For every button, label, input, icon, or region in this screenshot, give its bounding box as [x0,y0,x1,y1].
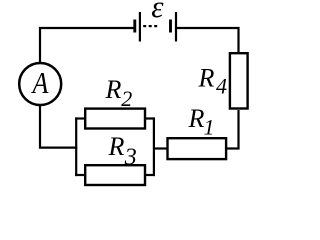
battery right tall thin plate [175,12,177,42]
left bus of parallel branch [75,117,77,176]
svg-text:3: 3 [124,145,137,171]
wire R1 to right vertical riser [226,110,239,149]
wire right bus to R1 [154,147,168,149]
wire stub R3 to right bus [145,174,155,176]
battery right short thick plate [169,20,172,33]
wire stub R2 to right bus [145,117,155,119]
svg-text:R: R [198,64,215,93]
ammeter A [19,63,61,105]
svg-text:1: 1 [204,115,215,140]
svg-text:4: 4 [216,74,227,99]
battery dotted cells gap [143,25,146,27]
svg-text:R: R [188,104,205,133]
svg-text:A: A [31,66,49,101]
battery left tall thin plate [139,12,141,42]
svg-text:2: 2 [121,86,132,111]
right bus of parallel branch [153,117,155,176]
wire stub left bus to R2 [75,117,86,119]
svg-text:R: R [108,132,125,161]
wire ammeter bottom to left bus [40,104,77,148]
resistor R3 [85,165,145,185]
battery EMF source [135,12,176,42]
resistor R2 [85,109,145,129]
wire top-right from battery to R4 [177,28,239,53]
resistor R4 [230,53,248,108]
svg-text:R: R [105,75,122,104]
wire stub left bus to R3 [75,174,86,176]
resistor R1 [168,138,227,159]
battery left short thick plate [133,20,136,33]
svg-text:ε: ε [151,0,164,24]
wire top-left from battery to ammeter top [40,28,135,64]
